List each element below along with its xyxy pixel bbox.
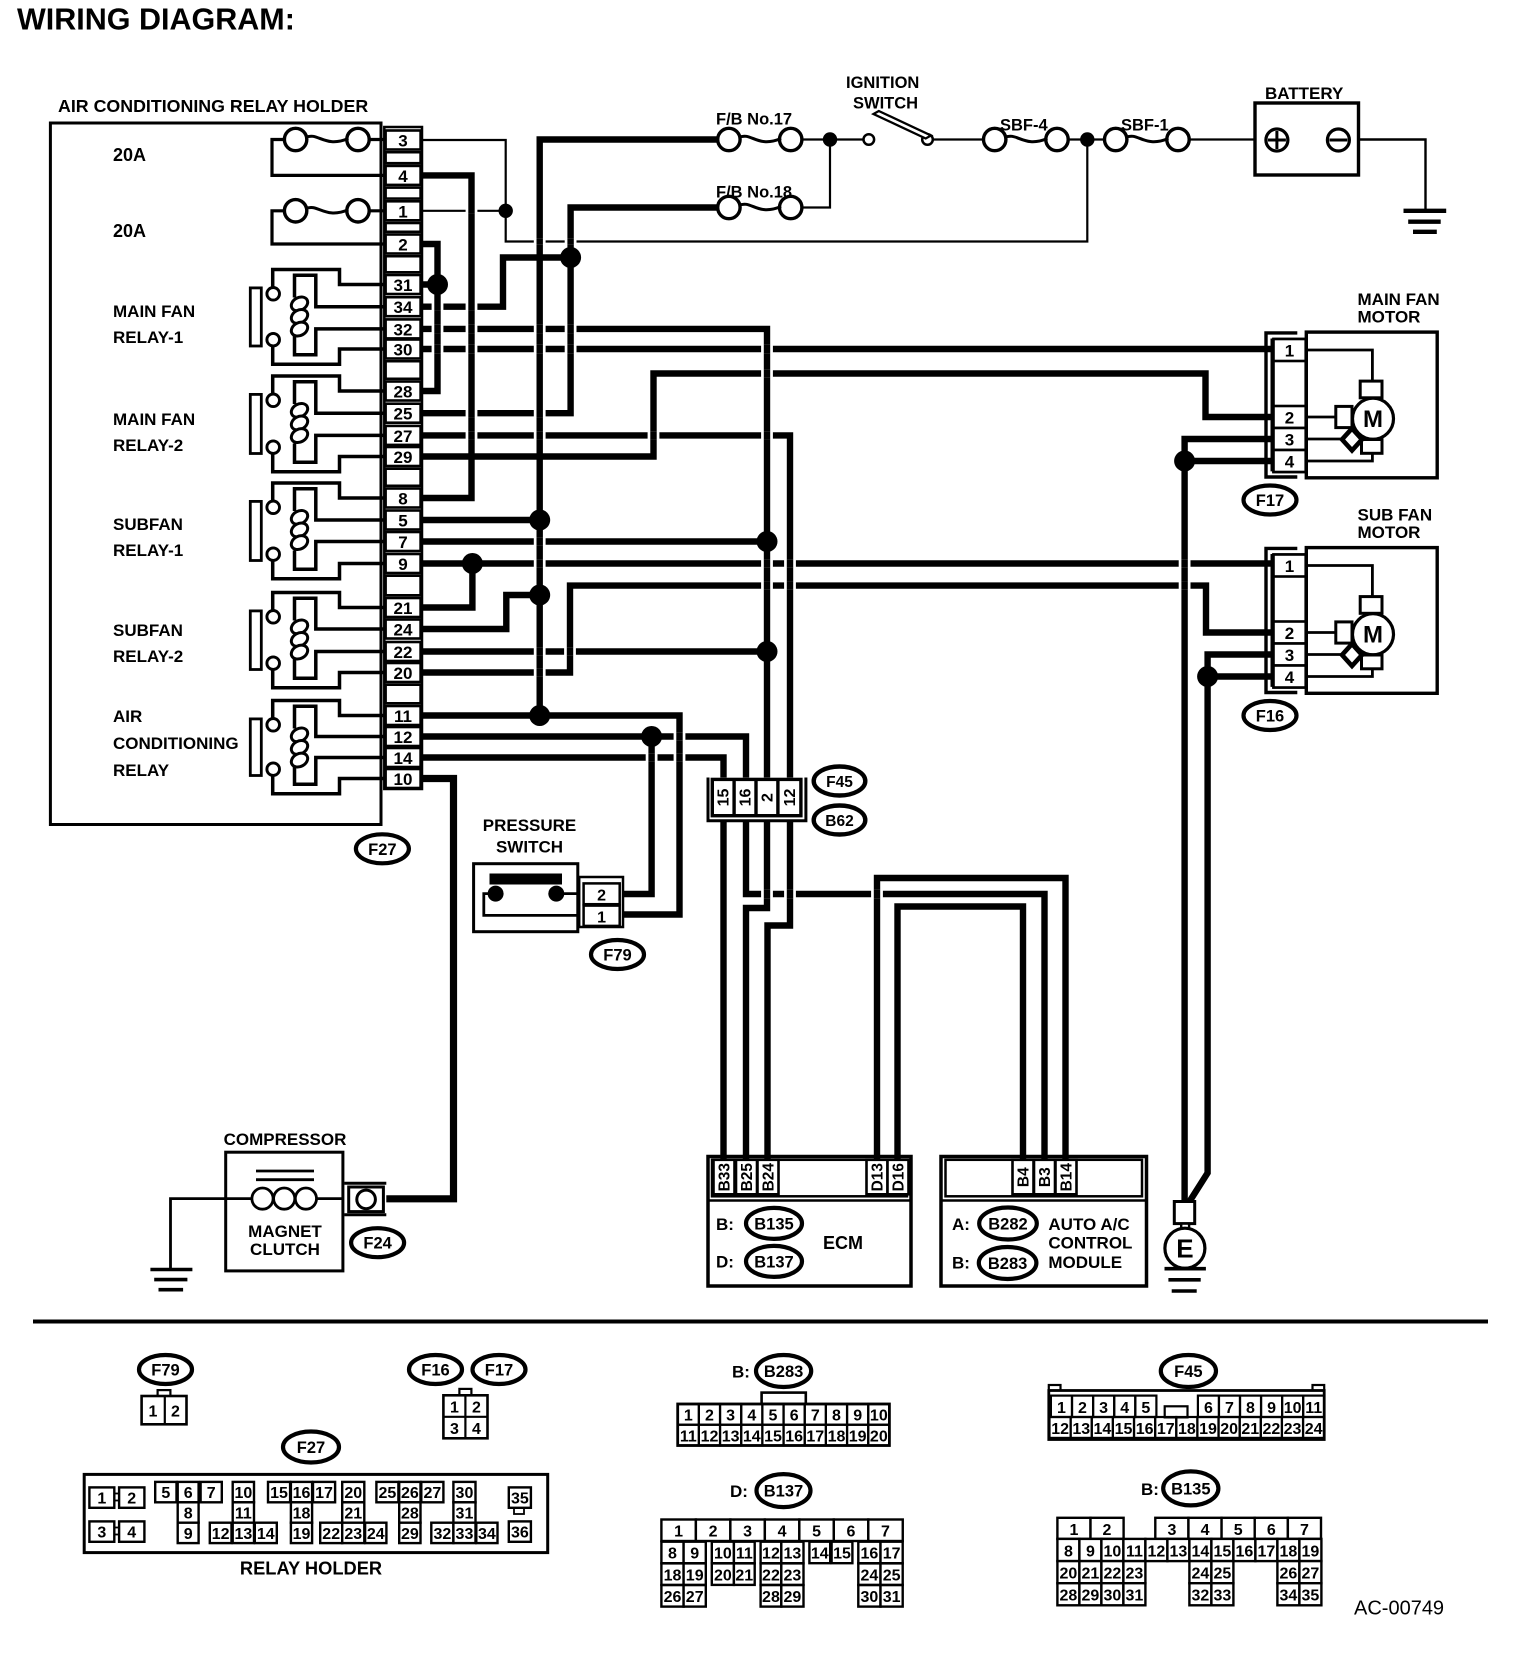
svg-text:1: 1 <box>674 1524 683 1541</box>
pin 8 cell <box>386 489 421 508</box>
pin 21 cell <box>386 598 421 617</box>
svg-text:18: 18 <box>828 1428 846 1445</box>
empty cell between pin 4 and pin 1 <box>386 188 421 199</box>
svg-text:B137: B137 <box>764 1483 803 1501</box>
relay SUBFAN RELAY-2 <box>273 593 386 611</box>
svg-text:F24: F24 <box>363 1235 392 1253</box>
svg-text:1: 1 <box>597 909 606 926</box>
pin 31 cell <box>386 275 421 294</box>
svg-text:11: 11 <box>1126 1543 1143 1560</box>
pin 1 cell <box>386 201 421 220</box>
empty cell between pin 1 and pin 2 <box>386 223 421 232</box>
pin 11 cell <box>386 706 421 725</box>
svg-text:14: 14 <box>394 749 413 768</box>
svg-text:29: 29 <box>1082 1588 1100 1605</box>
svg-text:12: 12 <box>394 728 413 747</box>
svg-text:AIR: AIR <box>113 707 142 726</box>
empty cell between pin 3 and pin 4 <box>386 152 421 163</box>
svg-text:3: 3 <box>1285 431 1294 450</box>
svg-text:D13: D13 <box>870 1163 887 1192</box>
svg-text:1: 1 <box>97 1491 106 1508</box>
wire main fan motor ground <box>1185 439 1277 1202</box>
svg-text:1: 1 <box>1285 557 1294 576</box>
connector F79 oval <box>591 940 644 969</box>
svg-text:24: 24 <box>1192 1566 1210 1583</box>
connector F45 oval (bottom) <box>1161 1355 1216 1387</box>
svg-text:ECM: ECM <box>823 1233 863 1253</box>
svg-text:7: 7 <box>1225 1400 1234 1417</box>
svg-text:31: 31 <box>1126 1588 1144 1605</box>
svg-text:15: 15 <box>1214 1543 1232 1560</box>
svg-text:B14: B14 <box>1059 1163 1076 1192</box>
connector B135 pin layout <box>1057 1518 1090 1539</box>
svg-text:2: 2 <box>1285 409 1294 428</box>
ECM pin B33 <box>714 1160 735 1195</box>
svg-text:2: 2 <box>709 1524 718 1541</box>
relay holder cells 5-9 <box>155 1482 176 1502</box>
svg-text:AUTO A/C: AUTO A/C <box>1048 1215 1129 1234</box>
svg-text:32: 32 <box>394 320 413 339</box>
svg-text:15: 15 <box>716 789 733 807</box>
wire F45 pin 16 to module B3 <box>746 815 1045 1160</box>
connector F16 oval <box>1244 701 1297 730</box>
svg-text:19: 19 <box>686 1567 704 1584</box>
svg-text:9: 9 <box>1086 1543 1095 1560</box>
connector F16 oval (bottom) <box>409 1355 462 1384</box>
svg-text:B25: B25 <box>739 1163 756 1192</box>
svg-text:B3: B3 <box>1037 1167 1054 1187</box>
svg-text:24: 24 <box>367 1526 385 1543</box>
svg-text:18: 18 <box>664 1567 682 1584</box>
svg-text:5: 5 <box>812 1524 821 1541</box>
pin 27 cell <box>386 426 421 445</box>
svg-text:15: 15 <box>1115 1421 1133 1438</box>
svg-text:29: 29 <box>401 1526 419 1543</box>
svg-text:1: 1 <box>398 202 407 221</box>
connector B283 pin layout <box>762 1393 806 1404</box>
wire battery unswitched feed (thin) <box>421 140 1087 242</box>
pin 29 cell <box>386 447 421 466</box>
svg-text:6: 6 <box>847 1524 856 1541</box>
svg-text:8: 8 <box>184 1506 193 1523</box>
pin 22 cell <box>386 642 421 661</box>
svg-text:8: 8 <box>832 1408 841 1425</box>
wire pin 14 to connector F45 pin 15 <box>421 758 723 782</box>
wire pin 10 to compressor magnet clutch <box>386 779 453 1199</box>
svg-text:25: 25 <box>379 1485 397 1502</box>
relay holder cells 30-34 <box>453 1482 475 1502</box>
svg-text:21: 21 <box>394 599 413 618</box>
svg-text:SBF-1: SBF-1 <box>1121 117 1169 135</box>
module pin B14 <box>1056 1160 1077 1195</box>
relay AIR CONDITIONING RELAY <box>273 701 386 719</box>
svg-text:B282: B282 <box>988 1216 1027 1234</box>
svg-text:35: 35 <box>1302 1588 1320 1605</box>
svg-text:10: 10 <box>714 1546 732 1563</box>
connector F17 oval (bottom) <box>473 1355 526 1384</box>
svg-text:14: 14 <box>743 1428 761 1445</box>
pressure switch pins 2 and 1 <box>579 877 623 927</box>
svg-text:F17: F17 <box>485 1362 513 1380</box>
svg-text:15: 15 <box>270 1485 288 1502</box>
svg-text:27: 27 <box>423 1485 441 1502</box>
svg-text:6: 6 <box>184 1485 193 1502</box>
svg-text:SWITCH: SWITCH <box>496 838 563 857</box>
relay holder cells 25-29 <box>376 1482 398 1502</box>
svg-text:18: 18 <box>293 1506 311 1523</box>
ECM pin D13 <box>867 1160 888 1195</box>
svg-text:14: 14 <box>257 1526 275 1543</box>
main fan motor <box>1266 333 1297 477</box>
svg-text:20: 20 <box>1220 1421 1238 1438</box>
svg-text:5: 5 <box>1141 1400 1150 1417</box>
wire pin 2 to pin 28 <box>421 244 437 391</box>
svg-text:8: 8 <box>398 490 407 509</box>
compressor ground symbol <box>150 1268 192 1272</box>
wire ignition feed (thin) <box>801 138 863 140</box>
pin 2 cell <box>386 235 421 254</box>
svg-text:1: 1 <box>684 1408 693 1425</box>
svg-text:MAIN FAN: MAIN FAN <box>113 302 195 321</box>
svg-text:CLUTCH: CLUTCH <box>250 1240 320 1259</box>
svg-text:11: 11 <box>394 707 412 726</box>
svg-text:5: 5 <box>161 1485 170 1502</box>
ground symbol E <box>1165 1267 1206 1271</box>
auto A/C control module <box>941 1157 1147 1287</box>
svg-text:26: 26 <box>664 1589 682 1606</box>
wire pin 32 to connector F45 pin 2 <box>421 329 767 781</box>
svg-text:F27: F27 <box>297 1439 325 1457</box>
svg-text:33: 33 <box>1214 1588 1232 1605</box>
svg-text:11: 11 <box>736 1546 753 1563</box>
wire pin 4 to pin 8 <box>421 175 471 498</box>
relay holder pin layout <box>84 1474 548 1552</box>
wire pin 29 to main fan motor pin 2 <box>421 374 1276 457</box>
pin 25 cell <box>386 404 421 423</box>
svg-text:17: 17 <box>806 1428 824 1445</box>
svg-text:16: 16 <box>293 1485 311 1502</box>
svg-text:4: 4 <box>398 167 408 186</box>
svg-text:7: 7 <box>398 533 407 552</box>
pin 7 cell <box>386 532 421 551</box>
battery ground wire <box>1359 140 1426 211</box>
svg-text:4: 4 <box>1201 1522 1210 1539</box>
svg-text:7: 7 <box>811 1408 820 1425</box>
wire ECM D13 to module B14 <box>877 878 1066 1160</box>
svg-text:18: 18 <box>1280 1543 1298 1560</box>
pin 34 cell <box>386 297 421 316</box>
svg-text:5: 5 <box>398 512 407 531</box>
relay holder cells 10-14 <box>233 1482 254 1502</box>
svg-text:5: 5 <box>1234 1522 1243 1539</box>
svg-text:IGNITION: IGNITION <box>846 74 919 92</box>
module pin B3 <box>1034 1160 1055 1195</box>
wire pin 9 to sub fan motor pin 1 <box>421 560 1276 566</box>
svg-text:30: 30 <box>456 1485 474 1502</box>
svg-text:B283: B283 <box>764 1363 803 1381</box>
svg-text:RELAY-1: RELAY-1 <box>113 328 183 347</box>
svg-text:27: 27 <box>394 427 413 446</box>
svg-text:24: 24 <box>1305 1421 1323 1438</box>
svg-text:B:: B: <box>952 1254 970 1273</box>
wire F/B No.17 output down left column <box>540 140 719 716</box>
svg-text:9: 9 <box>398 555 407 574</box>
svg-text:4: 4 <box>1285 668 1295 687</box>
svg-text:22: 22 <box>394 643 413 662</box>
svg-text:MODULE: MODULE <box>1048 1253 1122 1272</box>
svg-text:11: 11 <box>235 1506 252 1523</box>
wire pin 1 branch (thin) <box>421 210 505 212</box>
svg-text:F45: F45 <box>826 774 853 791</box>
svg-text:2: 2 <box>472 1400 481 1417</box>
svg-text:F/B No.17: F/B No.17 <box>716 111 792 129</box>
svg-text:13: 13 <box>1170 1543 1188 1560</box>
wire F/B No.18 link to ignition node (thin) <box>801 140 830 208</box>
svg-text:34: 34 <box>1280 1588 1298 1605</box>
svg-text:1: 1 <box>1057 1400 1066 1417</box>
wire pin 31 stub <box>421 281 437 287</box>
svg-text:34: 34 <box>394 298 413 317</box>
svg-text:16: 16 <box>785 1428 803 1445</box>
junction dots <box>823 132 837 146</box>
svg-text:4: 4 <box>472 1421 481 1438</box>
svg-text:2: 2 <box>398 236 407 255</box>
connector F24 oval <box>351 1228 404 1257</box>
svg-text:B4: B4 <box>1016 1167 1033 1187</box>
svg-text:3: 3 <box>1285 646 1294 665</box>
svg-text:SBF-4: SBF-4 <box>1000 117 1048 135</box>
svg-text:SUBFAN: SUBFAN <box>113 621 183 640</box>
svg-text:3: 3 <box>450 1421 459 1438</box>
svg-text:20: 20 <box>344 1485 362 1502</box>
svg-text:F79: F79 <box>151 1362 179 1380</box>
svg-text:19: 19 <box>1199 1421 1217 1438</box>
svg-text:B135: B135 <box>1171 1480 1210 1498</box>
relay holder cells 1-4 <box>114 1494 119 1501</box>
svg-text:27: 27 <box>686 1589 704 1606</box>
svg-text:29: 29 <box>784 1589 802 1606</box>
pin 14 cell <box>386 748 421 767</box>
wire pin 7 row <box>421 538 767 544</box>
svg-text:14: 14 <box>811 1546 829 1563</box>
sub fan motor <box>1266 548 1297 692</box>
svg-text:RELAY: RELAY <box>113 761 170 780</box>
svg-text:13: 13 <box>1072 1421 1090 1438</box>
svg-text:16: 16 <box>1136 1421 1154 1438</box>
svg-text:D:: D: <box>730 1482 748 1501</box>
svg-text:24: 24 <box>394 621 413 640</box>
svg-text:2: 2 <box>597 888 606 905</box>
svg-text:8: 8 <box>1064 1543 1073 1560</box>
svg-text:12: 12 <box>1051 1421 1069 1438</box>
ECM pin B25 <box>736 1160 757 1195</box>
svg-text:F16: F16 <box>421 1362 449 1380</box>
battery ground symbol <box>1404 209 1447 213</box>
svg-text:9: 9 <box>184 1526 193 1543</box>
svg-text:2: 2 <box>705 1408 714 1425</box>
svg-text:A:: A: <box>952 1215 970 1234</box>
svg-text:AIR CONDITIONING RELAY HOLDER: AIR CONDITIONING RELAY HOLDER <box>58 96 368 116</box>
wire pin 30 to main fan motor pin 1 <box>421 346 1276 352</box>
relay MAIN FAN RELAY-2 <box>273 376 386 394</box>
svg-text:F45: F45 <box>1174 1363 1202 1381</box>
svg-text:16: 16 <box>1236 1543 1254 1560</box>
svg-text:B62: B62 <box>825 813 853 830</box>
wire pin 20 to sub fan motor pin 2 <box>421 586 1276 673</box>
svg-text:MOTOR: MOTOR <box>1358 308 1421 327</box>
pin 9 cell <box>386 554 421 573</box>
connector strip F27 pin column <box>384 127 422 789</box>
svg-text:28: 28 <box>762 1589 780 1606</box>
svg-text:19: 19 <box>849 1428 867 1445</box>
svg-text:23: 23 <box>784 1567 802 1584</box>
wire pin 21 branch <box>421 564 472 608</box>
pin 30 cell <box>386 340 421 359</box>
wire F45 pin 15 to ECM B33 <box>720 815 726 1160</box>
svg-text:1: 1 <box>450 1400 459 1417</box>
svg-text:21: 21 <box>1082 1566 1100 1583</box>
svg-text:20: 20 <box>870 1428 888 1445</box>
empty cell between pin 29 and pin 8 <box>386 469 421 486</box>
svg-text:WIRING DIAGRAM:: WIRING DIAGRAM: <box>17 3 295 37</box>
svg-text:30: 30 <box>394 341 413 360</box>
svg-text:31: 31 <box>883 1589 901 1606</box>
svg-text:RELAY-2: RELAY-2 <box>113 436 183 455</box>
svg-text:1: 1 <box>149 1404 158 1421</box>
connector B62 oval <box>814 806 866 835</box>
svg-text:6: 6 <box>790 1408 799 1425</box>
compressor ground wire <box>171 1199 226 1270</box>
wire ECM D16 to module B4 <box>898 907 1024 1161</box>
svg-text:16: 16 <box>738 789 755 807</box>
ECM <box>708 1157 911 1287</box>
wire crossing gaps <box>432 303 444 311</box>
svg-text:34: 34 <box>478 1526 496 1543</box>
svg-text:MAIN FAN: MAIN FAN <box>113 410 195 429</box>
svg-text:30: 30 <box>861 1589 879 1606</box>
svg-text:20: 20 <box>394 664 413 683</box>
wire pin 27 to connector F45 pin 12 <box>421 435 790 781</box>
svg-text:M: M <box>1363 406 1383 433</box>
svg-text:4: 4 <box>1120 1400 1129 1417</box>
empty cell between pin 30 and pin 28 <box>386 361 421 379</box>
wire F45 pin 12 to ECM B24 <box>768 815 791 1160</box>
svg-text:26: 26 <box>1280 1566 1298 1583</box>
svg-text:27: 27 <box>1302 1566 1320 1583</box>
svg-text:D16: D16 <box>891 1163 908 1192</box>
svg-text:20A: 20A <box>113 221 146 241</box>
svg-text:31: 31 <box>394 276 413 295</box>
svg-text:3: 3 <box>398 132 407 151</box>
svg-text:3: 3 <box>1099 1400 1108 1417</box>
svg-text:10: 10 <box>234 1485 252 1502</box>
svg-text:3: 3 <box>1167 1522 1176 1539</box>
svg-text:28: 28 <box>401 1506 419 1523</box>
svg-text:15: 15 <box>833 1546 851 1563</box>
svg-text:B135: B135 <box>754 1215 793 1233</box>
svg-text:20: 20 <box>1060 1566 1078 1583</box>
svg-text:10: 10 <box>1104 1543 1122 1560</box>
svg-text:BATTERY: BATTERY <box>1265 84 1344 103</box>
svg-text:4: 4 <box>778 1524 787 1541</box>
svg-text:16: 16 <box>861 1546 879 1563</box>
svg-text:PRESSURE: PRESSURE <box>483 816 577 835</box>
pin 20 cell <box>386 663 421 682</box>
svg-text:11: 11 <box>1305 1400 1322 1417</box>
connector F16/F17 pin layout <box>459 1389 471 1395</box>
pin 5 cell <box>386 511 421 530</box>
svg-text:26: 26 <box>401 1485 419 1502</box>
ECM pin D16 <box>888 1160 909 1195</box>
svg-text:2: 2 <box>171 1404 180 1421</box>
svg-text:15: 15 <box>764 1428 782 1445</box>
connector F45/B62 inline <box>708 778 806 821</box>
svg-text:20: 20 <box>714 1567 732 1584</box>
svg-text:SUB FAN: SUB FAN <box>1358 506 1433 525</box>
svg-text:36: 36 <box>511 1525 529 1542</box>
connector B137 pin layout <box>661 1520 695 1542</box>
wire pin 34 tap <box>421 258 570 307</box>
svg-text:17: 17 <box>1258 1543 1276 1560</box>
svg-text:RELAY HOLDER: RELAY HOLDER <box>240 1558 382 1579</box>
connector F79 pin layout <box>158 1390 171 1396</box>
pin 12 cell <box>386 727 421 746</box>
svg-text:35: 35 <box>511 1491 529 1508</box>
svg-text:11: 11 <box>680 1428 697 1445</box>
svg-text:13: 13 <box>234 1526 252 1543</box>
ground terminal E <box>1174 1202 1194 1224</box>
svg-text:4: 4 <box>127 1525 136 1542</box>
svg-text:2: 2 <box>759 793 776 802</box>
svg-text:SWITCH: SWITCH <box>853 95 918 113</box>
svg-text:28: 28 <box>394 383 413 402</box>
svg-text:10: 10 <box>394 770 413 789</box>
svg-text:B137: B137 <box>754 1253 793 1271</box>
pin 24 cell <box>386 620 421 639</box>
empty cell between pin 2 and pin 31 <box>386 256 421 272</box>
svg-text:3: 3 <box>726 1408 735 1425</box>
svg-text:18: 18 <box>1178 1421 1196 1438</box>
svg-text:SUBFAN: SUBFAN <box>113 515 183 534</box>
ECM pin B24 <box>758 1160 779 1195</box>
svg-text:7: 7 <box>881 1524 890 1541</box>
connector F27 oval <box>356 834 409 863</box>
svg-text:COMPRESSOR: COMPRESSOR <box>224 1130 347 1149</box>
svg-text:B:: B: <box>716 1215 734 1234</box>
pin 10 cell <box>386 769 421 788</box>
svg-text:2: 2 <box>1285 624 1294 643</box>
svg-text:30: 30 <box>1104 1588 1122 1605</box>
svg-text:5: 5 <box>769 1408 778 1425</box>
svg-text:21: 21 <box>735 1567 753 1584</box>
svg-text:14: 14 <box>1192 1543 1210 1560</box>
svg-text:E: E <box>1176 1234 1193 1264</box>
pin 3 cell <box>386 131 421 150</box>
svg-text:25: 25 <box>1214 1566 1232 1583</box>
svg-text:2: 2 <box>127 1491 136 1508</box>
connector F24 <box>344 1182 386 1185</box>
svg-text:20A: 20A <box>113 145 146 165</box>
svg-text:8: 8 <box>668 1546 677 1563</box>
svg-text:19: 19 <box>1302 1543 1320 1560</box>
svg-text:M: M <box>1363 622 1383 649</box>
svg-text:25: 25 <box>883 1567 901 1584</box>
svg-text:23: 23 <box>1126 1566 1144 1583</box>
svg-text:8: 8 <box>1246 1400 1255 1417</box>
svg-text:32: 32 <box>433 1526 451 1543</box>
svg-text:13: 13 <box>722 1428 740 1445</box>
svg-text:MAIN FAN: MAIN FAN <box>1358 290 1440 309</box>
